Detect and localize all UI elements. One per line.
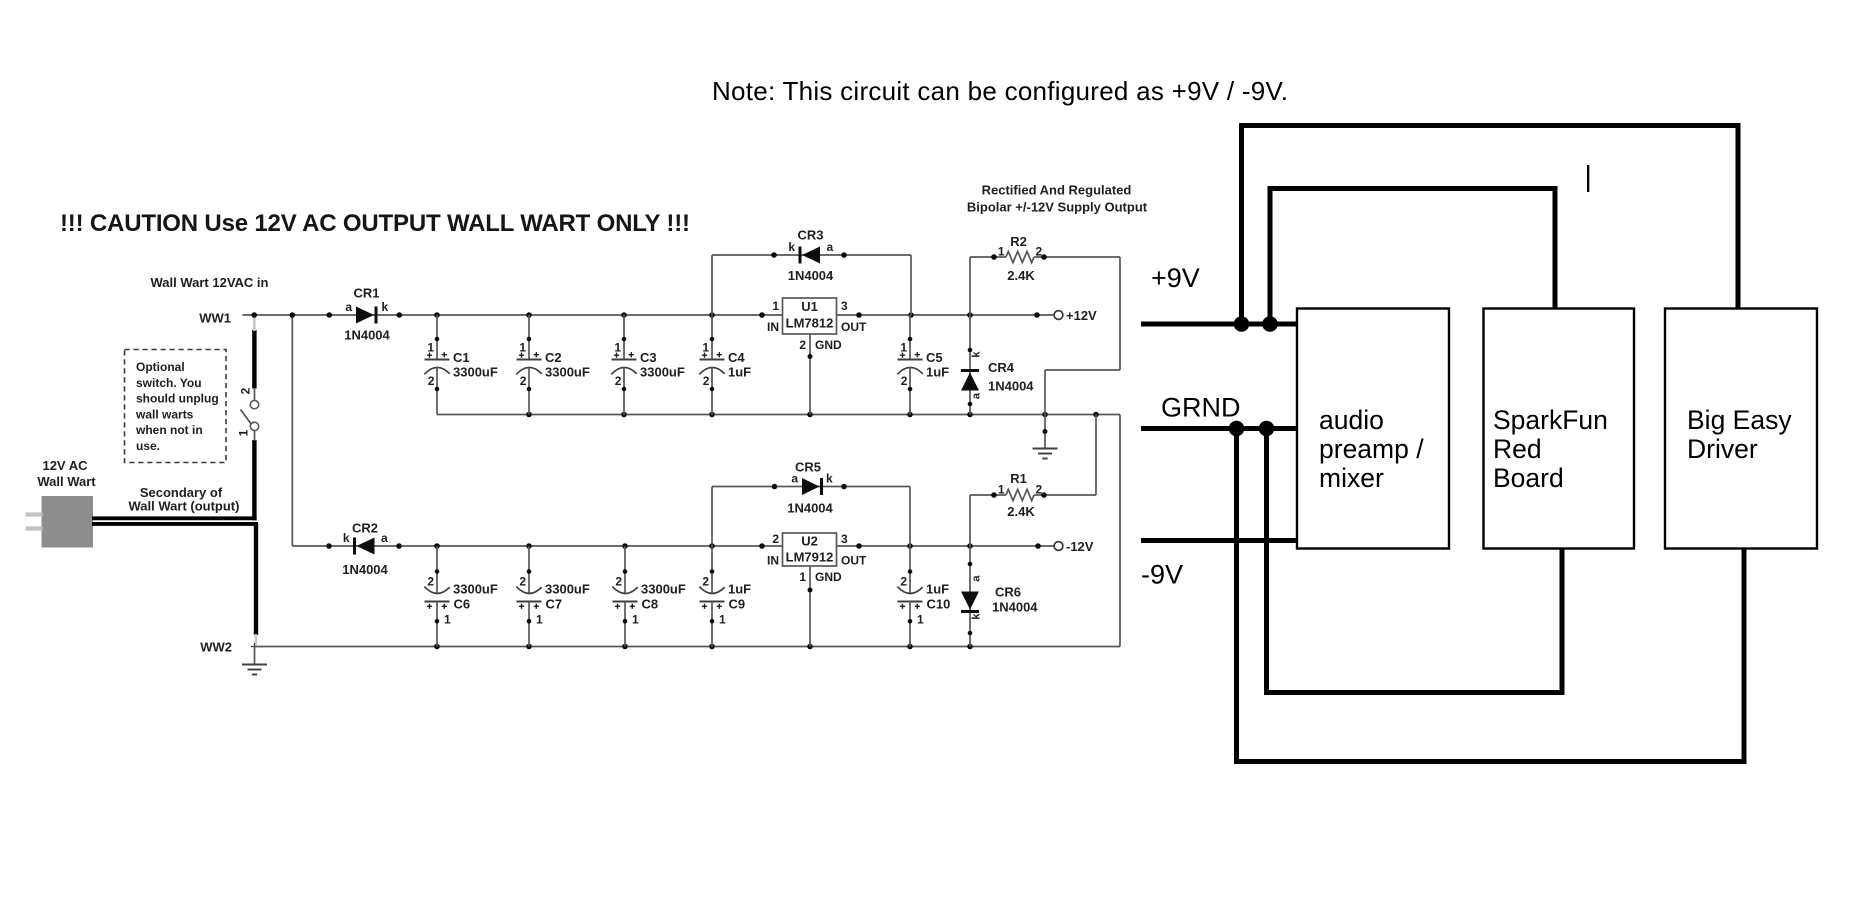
capacitor C8 3300uF bbox=[612, 546, 686, 647]
svg-text:mixer: mixer bbox=[1319, 463, 1384, 493]
junction dots: bottom rail bbox=[434, 644, 973, 650]
svg-text:1: 1 bbox=[998, 483, 1005, 497]
svg-text:Wall Wart 12VAC in: Wall Wart 12VAC in bbox=[151, 275, 269, 290]
svg-text:1: 1 bbox=[444, 613, 451, 627]
capacitor C3 3300uF bbox=[611, 315, 685, 415]
svg-text:1N4004: 1N4004 bbox=[992, 600, 1038, 615]
wire: thick lead down to WW2 bbox=[254, 524, 259, 645]
svg-text:C1: C1 bbox=[453, 350, 470, 365]
svg-text:GRND: GRND bbox=[1161, 393, 1241, 423]
svg-text:C7: C7 bbox=[546, 597, 563, 612]
wire: -9V bus bbox=[1141, 538, 1297, 543]
junction dots: top rail bbox=[251, 312, 1039, 318]
svg-text:a: a bbox=[345, 300, 352, 314]
capacitor C5 1uF bbox=[897, 315, 949, 415]
svg-text:!!! CAUTION Use 12V AC OUTPUT: !!! CAUTION Use 12V AC OUTPUT WALL WART … bbox=[60, 210, 690, 237]
svg-text:2: 2 bbox=[427, 575, 434, 589]
svg-text:C5: C5 bbox=[926, 350, 943, 365]
svg-text:1N4004: 1N4004 bbox=[344, 328, 390, 343]
svg-text:should unplug: should unplug bbox=[136, 392, 219, 406]
svg-text:CR2: CR2 bbox=[352, 521, 378, 536]
svg-text:1: 1 bbox=[719, 613, 726, 627]
svg-text:Bipolar +/-12V Supply Output: Bipolar +/-12V Supply Output bbox=[967, 200, 1148, 215]
diode CR4 bbox=[961, 351, 1034, 400]
diode CR5 bbox=[787, 460, 833, 516]
svg-text:OUT: OUT bbox=[841, 554, 867, 568]
capacitor C9 1uF bbox=[699, 546, 751, 647]
wire: thick lead up to switch bbox=[252, 317, 256, 521]
capacitor C7 3300uF bbox=[516, 546, 590, 647]
svg-text:WW1: WW1 bbox=[199, 311, 231, 326]
svg-text:3300uF: 3300uF bbox=[641, 582, 686, 597]
wire: +9V to Big Easy Driver (top loop) bbox=[1242, 126, 1739, 325]
svg-text:1: 1 bbox=[900, 341, 907, 355]
terminal -12V bbox=[1054, 539, 1094, 554]
svg-text:3: 3 bbox=[841, 299, 848, 313]
svg-text:3300uF: 3300uF bbox=[545, 582, 590, 597]
ground (supply common) bbox=[1033, 415, 1058, 459]
svg-text:12V AC: 12V AC bbox=[42, 458, 88, 473]
svg-text:3300uF: 3300uF bbox=[453, 365, 498, 380]
svg-text:+12V: +12V bbox=[1066, 308, 1097, 323]
wire: CR3 feedback loop bbox=[712, 252, 911, 315]
wire: +9V bus bbox=[1141, 322, 1297, 327]
svg-text:1: 1 bbox=[632, 613, 639, 627]
svg-text:3300uF: 3300uF bbox=[545, 365, 590, 380]
svg-text:1N4004: 1N4004 bbox=[988, 379, 1034, 394]
svg-text:2: 2 bbox=[1036, 245, 1043, 259]
svg-text:2.4K: 2.4K bbox=[1007, 504, 1035, 519]
node WW1 bbox=[199, 311, 231, 326]
svg-text:2: 2 bbox=[615, 374, 622, 388]
svg-text:R2: R2 bbox=[1010, 234, 1027, 249]
block: audio preamp / mixer bbox=[1297, 309, 1449, 549]
svg-text:SparkFun: SparkFun bbox=[1493, 405, 1608, 435]
svg-text:1: 1 bbox=[536, 613, 543, 627]
terminal +12V bbox=[1054, 308, 1097, 323]
svg-text:-12V: -12V bbox=[1066, 539, 1094, 554]
svg-text:1uF: 1uF bbox=[728, 582, 751, 597]
svg-text:1: 1 bbox=[799, 570, 806, 584]
svg-text:when not in: when not in bbox=[135, 423, 203, 437]
resistor R1 2.4K bbox=[991, 471, 1047, 519]
svg-text:1N4004: 1N4004 bbox=[787, 501, 833, 516]
svg-text:C3: C3 bbox=[640, 350, 657, 365]
svg-text:Wall Wart (output): Wall Wart (output) bbox=[129, 499, 240, 514]
wire: right GND drop bbox=[1119, 415, 1121, 647]
svg-text:LM7812: LM7812 bbox=[786, 316, 834, 331]
svg-text:U2: U2 bbox=[801, 534, 818, 549]
svg-text:a: a bbox=[971, 575, 983, 582]
svg-text:k: k bbox=[788, 240, 795, 254]
svg-text:a: a bbox=[381, 531, 388, 545]
svg-text:k: k bbox=[971, 351, 983, 358]
svg-text:audio: audio bbox=[1319, 405, 1384, 435]
wire: bottom WW2 rail bbox=[255, 646, 1121, 648]
svg-text:CR5: CR5 bbox=[795, 460, 821, 475]
svg-text:2: 2 bbox=[703, 374, 710, 388]
svg-text:3300uF: 3300uF bbox=[453, 582, 498, 597]
svg-text:CR4: CR4 bbox=[988, 360, 1015, 375]
svg-text:1: 1 bbox=[702, 341, 709, 355]
svg-text:LM7912: LM7912 bbox=[786, 550, 834, 565]
svg-text:2: 2 bbox=[239, 387, 253, 394]
junction: GRND taps bbox=[1229, 421, 1275, 437]
svg-text:Wall Wart: Wall Wart bbox=[37, 474, 96, 489]
svg-text:Note: This circuit can be conf: Note: This circuit can be configured as … bbox=[712, 76, 1288, 106]
svg-text:Red: Red bbox=[1493, 434, 1542, 464]
capacitor C2 3300uF bbox=[516, 315, 590, 415]
wire: GRND to Big Easy Driver (bottom loop) bbox=[1237, 429, 1745, 762]
svg-text:1: 1 bbox=[998, 245, 1005, 259]
block: Big Easy Driver bbox=[1665, 309, 1817, 549]
svg-text:CR6: CR6 bbox=[995, 585, 1021, 600]
svg-text:Driver: Driver bbox=[1687, 434, 1758, 464]
switch (optional, in WW1 lead) bbox=[237, 387, 259, 441]
svg-text:a: a bbox=[791, 472, 798, 486]
svg-text:GND: GND bbox=[815, 338, 842, 352]
svg-text:U1: U1 bbox=[801, 299, 818, 314]
svg-text:1: 1 bbox=[917, 613, 924, 627]
wire: WW1 drop to CR2 rail bbox=[291, 315, 293, 546]
svg-text:1uF: 1uF bbox=[926, 582, 949, 597]
svg-text:1uF: 1uF bbox=[926, 365, 949, 380]
diode CR1 bbox=[344, 286, 390, 343]
svg-text:1: 1 bbox=[614, 341, 621, 355]
svg-text:preamp /: preamp / bbox=[1319, 434, 1424, 464]
svg-text:1: 1 bbox=[519, 341, 526, 355]
svg-text:C10: C10 bbox=[927, 597, 951, 612]
wire: +9V to SparkFun Red Board bbox=[1270, 189, 1555, 325]
wire: mid GND rail bbox=[437, 414, 1120, 416]
wire: GRND to SparkFun Red Board bbox=[1267, 429, 1563, 693]
optional switch note box bbox=[125, 350, 227, 463]
ground (WW2) bbox=[242, 647, 267, 675]
svg-text:2: 2 bbox=[901, 374, 908, 388]
wire: R2 / +12V loop bbox=[970, 257, 1120, 415]
label rectified/regulated supply output bbox=[967, 183, 1148, 215]
capacitor C1 3300uF bbox=[424, 315, 498, 415]
svg-text:CR3: CR3 bbox=[797, 228, 823, 243]
regulator U2 LM7912 bbox=[767, 532, 867, 584]
junction dots: mid GND rail bbox=[526, 412, 1099, 418]
svg-text:k: k bbox=[971, 613, 983, 620]
svg-text:OUT: OUT bbox=[841, 320, 867, 334]
svg-text:a: a bbox=[971, 392, 983, 399]
svg-text:Big Easy: Big Easy bbox=[1687, 405, 1792, 435]
svg-text:IN: IN bbox=[767, 554, 779, 568]
svg-text:1: 1 bbox=[237, 429, 251, 436]
svg-text:GND: GND bbox=[815, 570, 842, 584]
svg-text:3300uF: 3300uF bbox=[640, 365, 685, 380]
svg-text:k: k bbox=[343, 531, 350, 545]
node WW2 bbox=[200, 640, 258, 655]
12V AC wall wart plug bbox=[26, 458, 97, 548]
svg-text:-9V: -9V bbox=[1141, 560, 1183, 590]
block: SparkFun Red Board bbox=[1484, 309, 1635, 549]
regulator U1 LM7812 bbox=[767, 298, 867, 352]
svg-text:WW2: WW2 bbox=[200, 640, 232, 655]
svg-text:2: 2 bbox=[519, 575, 526, 589]
svg-text:CR1: CR1 bbox=[353, 286, 379, 301]
wire: U1 GND pin to rail bbox=[808, 334, 813, 415]
capacitor C10 1uF bbox=[897, 546, 950, 647]
junction: +9V taps bbox=[1234, 316, 1278, 332]
text cursor artifact bbox=[1587, 165, 1589, 192]
wire: U2 GND pin to rail bbox=[808, 566, 813, 647]
svg-text:2.4K: 2.4K bbox=[1007, 268, 1035, 283]
svg-text:IN: IN bbox=[767, 320, 779, 334]
svg-text:+9V: +9V bbox=[1151, 263, 1200, 293]
wire: CR6 branch (R1 tap down to WW2 rail) bbox=[968, 495, 973, 647]
svg-text:2: 2 bbox=[520, 374, 527, 388]
svg-text:k: k bbox=[382, 300, 389, 314]
svg-text:Rectified And Regulated: Rectified And Regulated bbox=[982, 183, 1132, 198]
svg-text:C2: C2 bbox=[545, 350, 562, 365]
svg-text:C6: C6 bbox=[454, 597, 471, 612]
svg-text:C8: C8 bbox=[642, 597, 659, 612]
svg-text:k: k bbox=[826, 472, 833, 486]
wire: WW1 top rail bbox=[243, 314, 1054, 316]
wire: CR5 feedback loop bbox=[712, 484, 910, 546]
svg-text:Board: Board bbox=[1493, 463, 1564, 493]
svg-text:Optional: Optional bbox=[136, 360, 185, 374]
wire: CR4 branch (R2 tap down to GND rail) bbox=[968, 257, 973, 415]
svg-text:1N4004: 1N4004 bbox=[342, 562, 388, 577]
svg-text:2: 2 bbox=[772, 532, 779, 546]
wire: wall wart secondary (thick pair) bbox=[92, 485, 258, 524]
svg-text:switch. You: switch. You bbox=[136, 376, 202, 390]
wire: lower AC rail bbox=[292, 545, 1054, 547]
svg-text:1uF: 1uF bbox=[728, 365, 751, 380]
diode CR2 bbox=[342, 521, 388, 578]
svg-text:2: 2 bbox=[702, 575, 709, 589]
svg-text:3: 3 bbox=[841, 532, 848, 546]
svg-text:2: 2 bbox=[1036, 483, 1043, 497]
svg-text:C9: C9 bbox=[729, 597, 746, 612]
svg-text:2: 2 bbox=[900, 575, 907, 589]
wire: R1 / -12V loop bbox=[970, 415, 1096, 496]
resistor R2 2.4K bbox=[991, 234, 1047, 283]
svg-text:2: 2 bbox=[615, 575, 622, 589]
capacitor C6 3300uF bbox=[424, 546, 498, 647]
svg-text:2: 2 bbox=[799, 338, 806, 352]
svg-text:use.: use. bbox=[136, 439, 160, 453]
svg-text:2: 2 bbox=[428, 374, 435, 388]
wire: GRND bus bbox=[1141, 426, 1297, 431]
svg-text:1: 1 bbox=[772, 299, 779, 313]
capacitor C4 1uF bbox=[699, 315, 751, 415]
junction dots: lower AC rail bbox=[326, 543, 1041, 549]
svg-text:wall warts: wall warts bbox=[135, 407, 194, 421]
diode CR6 bbox=[961, 575, 1038, 620]
diode CR3 bbox=[788, 228, 834, 284]
svg-text:1: 1 bbox=[427, 341, 434, 355]
svg-text:a: a bbox=[827, 240, 834, 254]
svg-text:R1: R1 bbox=[1010, 471, 1027, 486]
svg-text:C4: C4 bbox=[728, 350, 745, 365]
svg-text:1N4004: 1N4004 bbox=[788, 268, 834, 283]
